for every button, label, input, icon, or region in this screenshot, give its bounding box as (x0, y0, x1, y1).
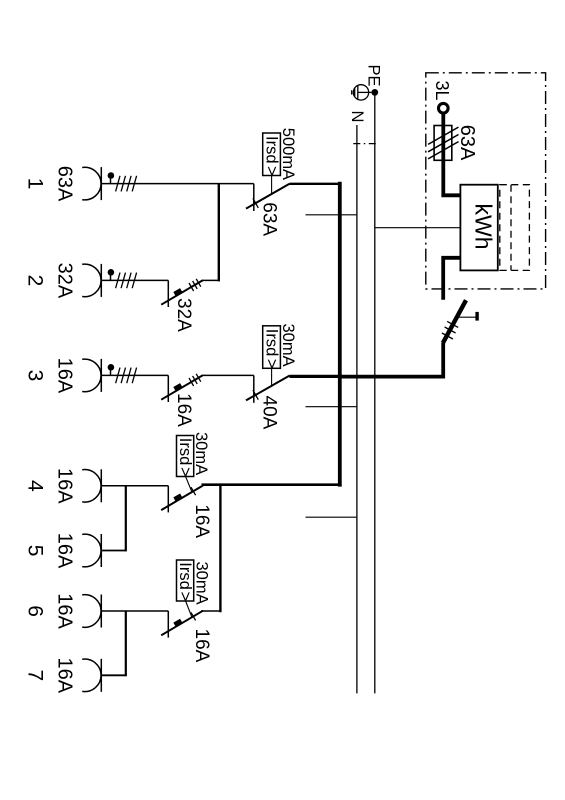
wire socket 7 (101, 674, 126, 676)
label 16A circuit 4 (54, 468, 76, 504)
manual actuator link of Q1 (457, 316, 476, 318)
wire kWh meter to main switch (443, 258, 460, 300)
pole ticks on breaker F4 blade (189, 374, 201, 386)
svg-text:16A: 16A (173, 393, 194, 427)
label 16A of RCBO F6 (191, 504, 212, 538)
PE conductor line (374, 92, 376, 693)
earthing-contact dot on socket 1 (108, 172, 115, 183)
link from Irsd box to RCD F5 blade (271, 368, 273, 386)
svg-text:16A: 16A (54, 533, 76, 569)
label N (348, 111, 366, 123)
meter cabinet dash-dot boundary box (426, 73, 546, 289)
svg-text:16A: 16A (54, 358, 76, 394)
label 16A circuit 6 (54, 593, 76, 629)
label 3 circuit number (24, 370, 47, 382)
svg-text:PE: PE (365, 65, 383, 87)
Irsd label of RCBO F6 (176, 438, 194, 477)
N stub to RCD F2 (306, 214, 357, 216)
main bus vertical (338, 184, 342, 485)
svg-text:30mA: 30mA (279, 324, 297, 367)
RCD F2 blade (246, 184, 290, 209)
svg-text:30mA: 30mA (193, 562, 211, 605)
label 30mA of RCD F5 (279, 324, 297, 367)
incoming supply terminal (439, 103, 449, 113)
wire main switch to distribution bus (340, 343, 443, 377)
label 32A for breaker F3 (173, 298, 194, 332)
branch circuit 6 to circuit 7 (125, 611, 127, 676)
wire socket 5 (101, 550, 126, 552)
wire breaker F4 to RCD F5 (203, 374, 254, 376)
label 32A circuit 2 (54, 263, 76, 299)
svg-text:3L: 3L (432, 81, 452, 101)
svg-text:63A: 63A (259, 202, 280, 236)
label 1 circuit number (24, 178, 47, 190)
svg-text:32A: 32A (173, 298, 194, 332)
svg-text:>: > (176, 467, 194, 477)
earthing-contact dot on socket 2 (108, 269, 115, 280)
circuit breaker F3 blade (161, 280, 203, 305)
main switch Q1 blade (443, 300, 466, 343)
pole ticks on main switch Q1 (442, 321, 458, 339)
label 16A circuit 3 (54, 358, 76, 394)
RCD F2 fixed contact hook (253, 184, 255, 211)
conductor-count slashes on circuit 2 wire (116, 273, 137, 289)
trip tick on RCBO F7 blade (191, 612, 196, 620)
socket outlet circuit 2 arc (82, 264, 101, 297)
label kWh (470, 204, 496, 250)
label 63A of fuse F1 (456, 125, 478, 161)
Irsd sensing box of RCD F2 (263, 133, 281, 176)
svg-text:500mA: 500mA (279, 128, 297, 180)
RCBO F6 blade (161, 486, 203, 511)
svg-text:Irsd: Irsd (262, 329, 280, 357)
svg-text:Irsd: Irsd (262, 136, 280, 164)
link from Irsd box to RCBO F7 blade (186, 601, 192, 617)
kWh meter box (460, 185, 497, 271)
manual actuator handle of Q1 (475, 312, 478, 321)
Irsd label of RCBO F7 (176, 562, 194, 601)
socket outlet circuit 4 arc (82, 469, 101, 502)
svg-text:32A: 32A (54, 263, 76, 299)
earth electrode symbol (352, 85, 372, 100)
label 3L incoming phases (432, 81, 452, 101)
feed drop from circuit 1 to breaker F3 (218, 184, 220, 282)
svg-text:16A: 16A (191, 504, 212, 538)
RCD F5 fixed contact hook (253, 375, 255, 402)
trip tick on RCD F2 blade (253, 198, 258, 208)
svg-text:16A: 16A (54, 593, 76, 629)
Irsd label of RCD F2 (262, 136, 280, 176)
svg-text:16A: 16A (54, 658, 76, 694)
boundary dash-dot mark across PE and N (353, 143, 378, 145)
circuit breaker F3 fixed contact hook (167, 280, 169, 307)
Irsd sensing box of RCBO F6 (177, 436, 194, 477)
RCBO F6 element mark (173, 493, 182, 501)
svg-text:16A: 16A (191, 629, 212, 663)
label 2 circuit number (24, 275, 47, 287)
meter terminal block dashed box (500, 185, 530, 271)
earthing-contact dot on socket 3 (108, 364, 115, 375)
socket outlet circuit 5 arc (82, 534, 101, 567)
label 7 circuit number (24, 670, 47, 682)
label 40A of RCD F5 (259, 396, 280, 430)
circuit breaker F4 blade (161, 375, 203, 400)
label 16A circuit 7 (54, 658, 76, 694)
socket outlet circuit 3 arc (82, 359, 101, 392)
RCBO F7 fixed contact hook (167, 611, 169, 638)
svg-text:5: 5 (24, 545, 47, 557)
svg-text:Irsd: Irsd (176, 562, 194, 590)
PE origin junction dot (371, 89, 378, 96)
wire RCD F2 to bus (290, 183, 341, 185)
Irsd sensing box of RCD F5 (263, 326, 281, 369)
RCBO F7 element mark (173, 619, 182, 627)
wire socket 4 to RCBO (101, 485, 168, 487)
wire socket 3 to breaker (101, 374, 168, 376)
link from Irsd box to RCBO F6 blade (186, 477, 192, 492)
svg-text:kWh: kWh (470, 204, 496, 250)
RCD F5 blade (246, 376, 290, 401)
N stub to RCBO F6 (306, 516, 357, 518)
bus to RCD group feed (202, 483, 342, 486)
N conductor line (356, 125, 358, 693)
Irsd sensing box of RCBO F7 (177, 560, 194, 601)
label 16A for breaker F4 (173, 393, 194, 427)
pole ticks on breaker F3 blade (189, 279, 201, 291)
svg-text:63A: 63A (54, 166, 76, 202)
label 30mA of RCBO F6 (192, 432, 210, 475)
svg-text:40A: 40A (259, 396, 280, 430)
label PE (365, 65, 383, 87)
wire socket 6 to RCBO (101, 610, 168, 612)
wire RCD F5 to bus (290, 375, 342, 378)
conductor-count slashes on circuit 3 wire (116, 368, 137, 384)
socket outlet circuit 7 arc (82, 659, 101, 692)
svg-text:Irsd: Irsd (176, 438, 194, 466)
meter terminal block divider (510, 185, 512, 271)
label 63A circuit 1 (54, 166, 76, 202)
wire socket 1 to RCD (101, 183, 254, 185)
svg-text:3: 3 (24, 370, 47, 382)
branch circuit 4 to circuit 5 (125, 486, 127, 552)
feed drop to RCBO F7 (219, 486, 221, 612)
circuit breaker F4 element mark (173, 383, 182, 391)
label 16A of RCBO F7 (191, 629, 212, 663)
N stub to RCD F5 (306, 406, 357, 408)
link from Irsd box to RCD F2 blade (271, 176, 273, 195)
label 5 circuit number (24, 545, 47, 557)
svg-text:4: 4 (24, 480, 47, 492)
svg-text:16A: 16A (54, 468, 76, 504)
label 4 circuit number (24, 480, 47, 492)
RCBO F7 blade (161, 611, 203, 636)
circuit breaker F3 element mark (173, 288, 182, 296)
wire breaker F3 output (203, 279, 220, 281)
socket outlet circuit 1 arc (82, 167, 101, 200)
3-phase slashes on fuse F1 (428, 127, 458, 159)
svg-text:>: > (176, 592, 194, 602)
svg-text:7: 7 (24, 670, 47, 682)
wire corner to RCBO F7 (201, 610, 220, 612)
label 6 circuit number (24, 605, 47, 617)
svg-text:2: 2 (24, 275, 47, 287)
circuit breaker F4 fixed contact hook (167, 375, 169, 402)
wire socket 2 to breaker (101, 279, 168, 281)
svg-text:1: 1 (24, 178, 47, 190)
trip tick on RCBO F6 blade (191, 487, 196, 495)
label 30mA of RCBO F7 (193, 562, 211, 605)
conductor-count slashes on circuit 1 wire (116, 176, 137, 192)
svg-text:6: 6 (24, 605, 47, 617)
trip tick on RCD F5 blade (253, 390, 258, 400)
svg-text:N: N (348, 111, 366, 123)
Irsd label of RCD F5 (262, 329, 280, 369)
RCBO F6 fixed contact hook (167, 486, 169, 513)
socket outlet circuit 6 arc (82, 595, 101, 628)
N connection to kWh meter (375, 227, 461, 229)
label 500mA of RCD F2 (279, 128, 297, 180)
label 63A of RCD F2 (259, 202, 280, 236)
svg-text:30mA: 30mA (192, 432, 210, 475)
main fuse F1 63A body (434, 126, 452, 161)
svg-text:63A: 63A (456, 125, 478, 161)
svg-text:>: > (262, 166, 280, 176)
wire terminal to kWh meter (443, 113, 460, 195)
label 16A circuit 5 (54, 533, 76, 569)
svg-text:>: > (262, 359, 280, 369)
